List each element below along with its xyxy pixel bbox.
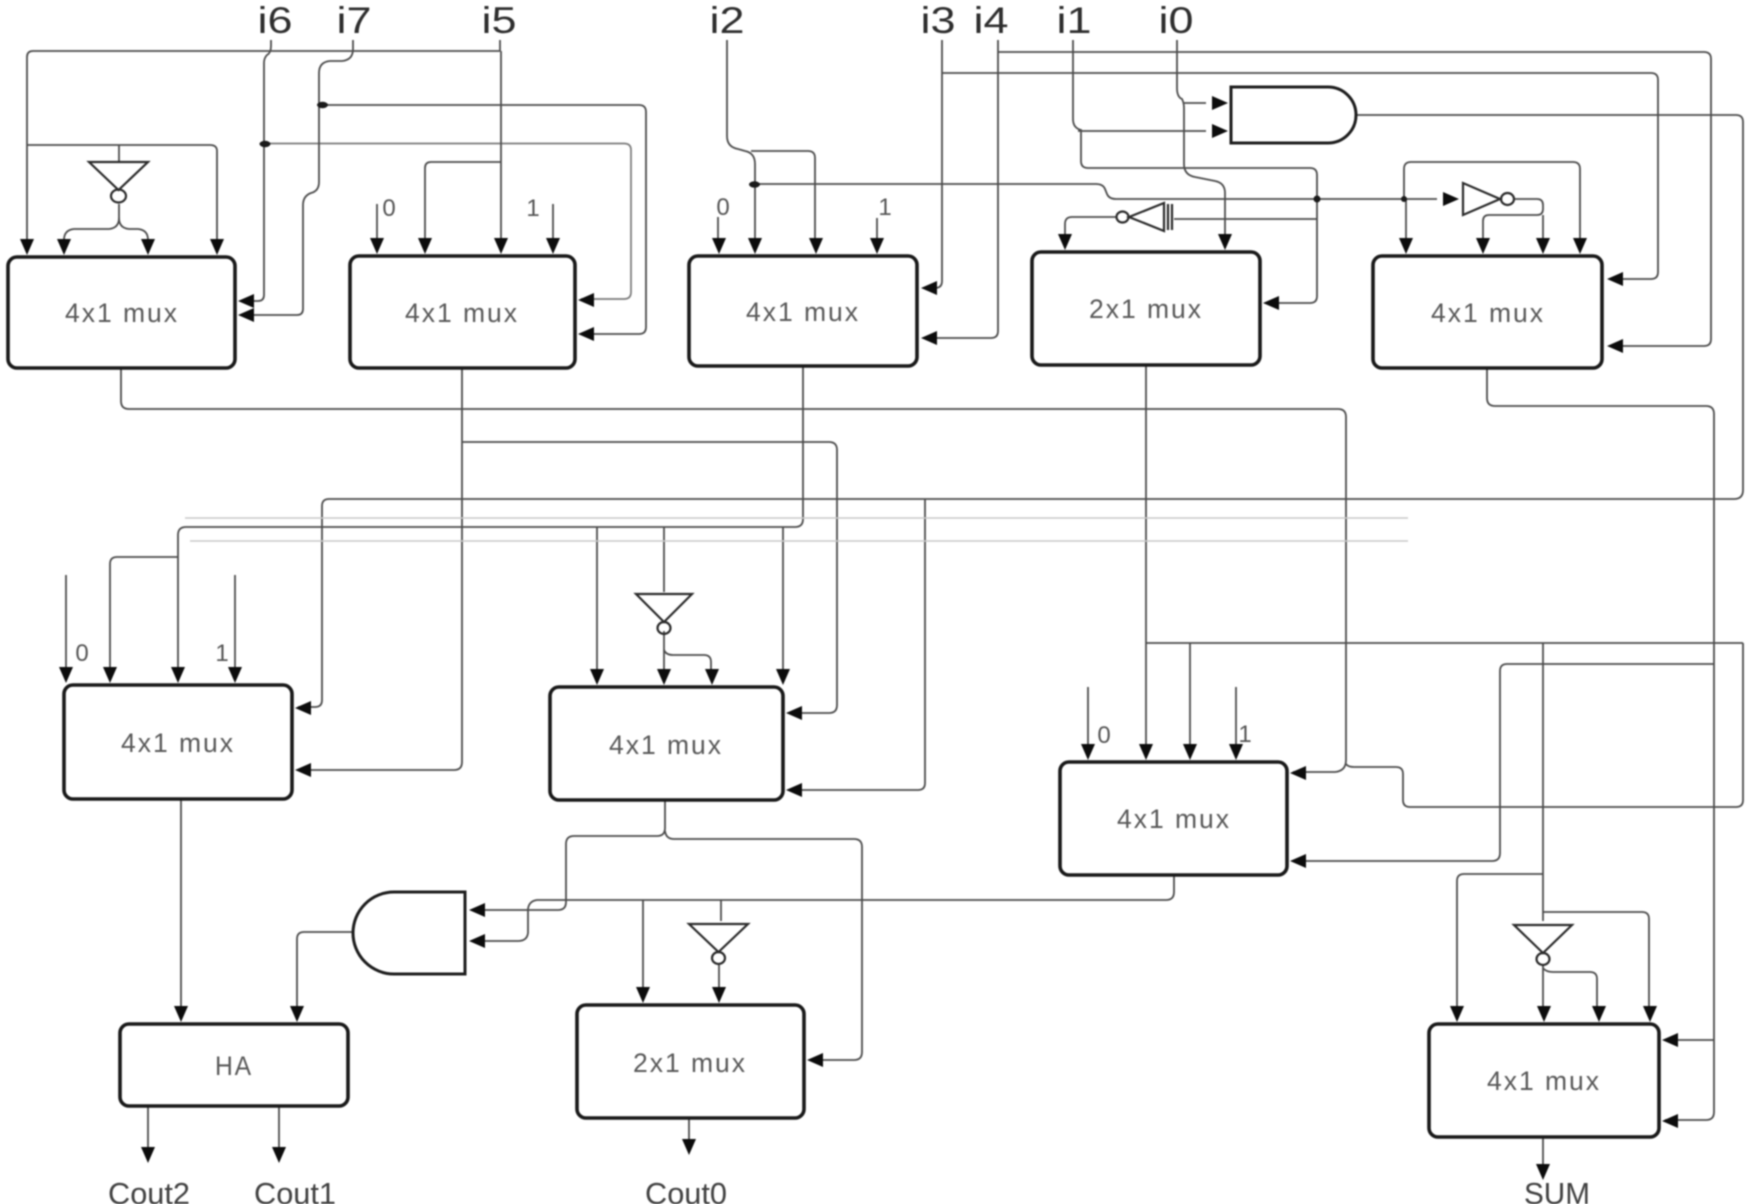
svg-text:i5: i5 xyxy=(482,0,517,41)
svg-text:i1: i1 xyxy=(1057,0,1092,41)
svg-text:4x1 mux: 4x1 mux xyxy=(65,298,179,328)
svg-text:0: 0 xyxy=(75,640,88,667)
svg-text:4x1 mux: 4x1 mux xyxy=(746,297,860,327)
svg-text:0: 0 xyxy=(716,194,729,221)
svg-text:i0: i0 xyxy=(1159,0,1194,41)
svg-text:i6: i6 xyxy=(258,0,293,41)
svg-text:4x1 mux: 4x1 mux xyxy=(609,730,723,760)
svg-text:1: 1 xyxy=(878,194,891,221)
svg-text:1: 1 xyxy=(215,640,228,667)
svg-text:Cout1: Cout1 xyxy=(254,1176,336,1204)
svg-text:4x1 mux: 4x1 mux xyxy=(1431,298,1545,328)
svg-text:i4: i4 xyxy=(974,0,1009,41)
svg-text:Cout2: Cout2 xyxy=(108,1176,190,1204)
svg-text:2x1 mux: 2x1 mux xyxy=(633,1048,747,1078)
svg-text:4x1 mux: 4x1 mux xyxy=(405,298,519,328)
svg-text:0: 0 xyxy=(382,195,395,222)
svg-text:1: 1 xyxy=(526,195,539,222)
svg-text:i7: i7 xyxy=(337,0,372,41)
svg-text:0: 0 xyxy=(1097,722,1110,749)
svg-text:1: 1 xyxy=(1238,721,1251,748)
svg-text:4x1 mux: 4x1 mux xyxy=(121,728,235,758)
svg-text:SUM: SUM xyxy=(1524,1176,1590,1204)
svg-text:HA: HA xyxy=(215,1051,253,1081)
svg-text:4x1 mux: 4x1 mux xyxy=(1487,1066,1601,1096)
svg-text:2x1 mux: 2x1 mux xyxy=(1089,294,1203,324)
svg-text:Cout0: Cout0 xyxy=(645,1176,727,1204)
svg-text:i3: i3 xyxy=(921,0,956,41)
svg-text:4x1 mux: 4x1 mux xyxy=(1117,804,1231,834)
svg-text:i2: i2 xyxy=(710,0,745,41)
